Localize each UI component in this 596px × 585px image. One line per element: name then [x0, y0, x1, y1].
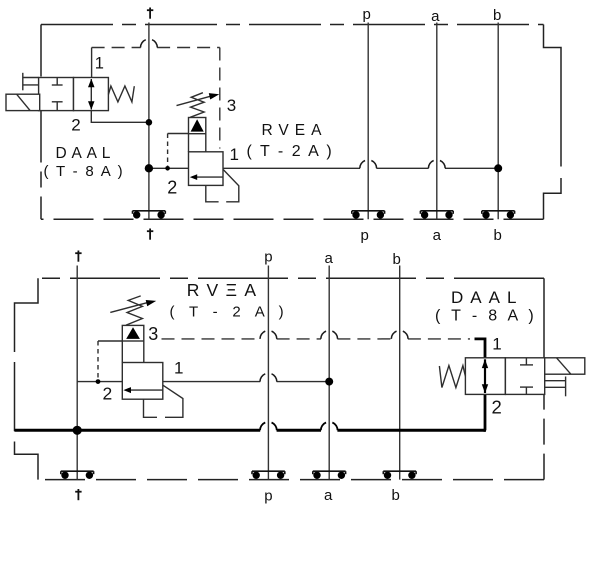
svg-text:RVΞA: RVΞA	[187, 280, 264, 300]
svg-text:( T - 8 A ): ( T - 8 A )	[435, 308, 537, 325]
svg-text:a: a	[431, 8, 440, 25]
svg-text:p: p	[264, 249, 272, 266]
svg-text:p: p	[361, 227, 369, 244]
svg-text:( T - 8 A ): ( T - 8 A )	[44, 163, 125, 180]
svg-text:a: a	[324, 487, 333, 504]
svg-text:3: 3	[148, 324, 158, 344]
svg-text:DAAL: DAAL	[451, 288, 523, 307]
svg-text:1: 1	[174, 358, 183, 377]
svg-text:( T - 2 A ): ( T - 2 A )	[170, 304, 289, 321]
svg-text:b: b	[494, 227, 502, 244]
svg-text:a: a	[433, 227, 442, 244]
svg-text:2: 2	[71, 116, 80, 135]
svg-text:3: 3	[227, 96, 236, 115]
svg-text:1: 1	[230, 145, 239, 164]
svg-text:RVEA: RVEA	[262, 122, 328, 139]
svg-text:b: b	[493, 7, 501, 24]
svg-text:2: 2	[492, 396, 502, 417]
svg-text:2: 2	[167, 178, 177, 198]
svg-text:( T - 2 A ): ( T - 2 A )	[247, 143, 334, 160]
svg-text:b: b	[393, 251, 401, 268]
svg-text:2: 2	[103, 384, 113, 404]
svg-text:DAAL: DAAL	[56, 145, 116, 162]
svg-text:p: p	[363, 6, 371, 23]
svg-text:p: p	[264, 488, 272, 505]
svg-text:b: b	[392, 487, 400, 504]
svg-text:1: 1	[492, 335, 501, 354]
svg-text:a: a	[325, 250, 334, 267]
svg-text:1: 1	[95, 54, 104, 72]
